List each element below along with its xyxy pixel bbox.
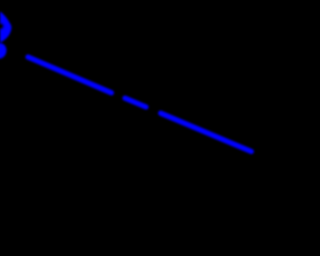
node B (clipped blob below node A, lower loop): [0, 42, 8, 60]
wire (dashed edge, segment 3): [161, 113, 252, 151]
node A (clipped ring at left edge, upper loop): [0, 11, 12, 42]
wire (dashed edge, segment 1): [28, 57, 111, 93]
wire (dashed edge, segment 2): [125, 98, 146, 107]
node A hole (counter of loop): [0, 23, 4, 30]
